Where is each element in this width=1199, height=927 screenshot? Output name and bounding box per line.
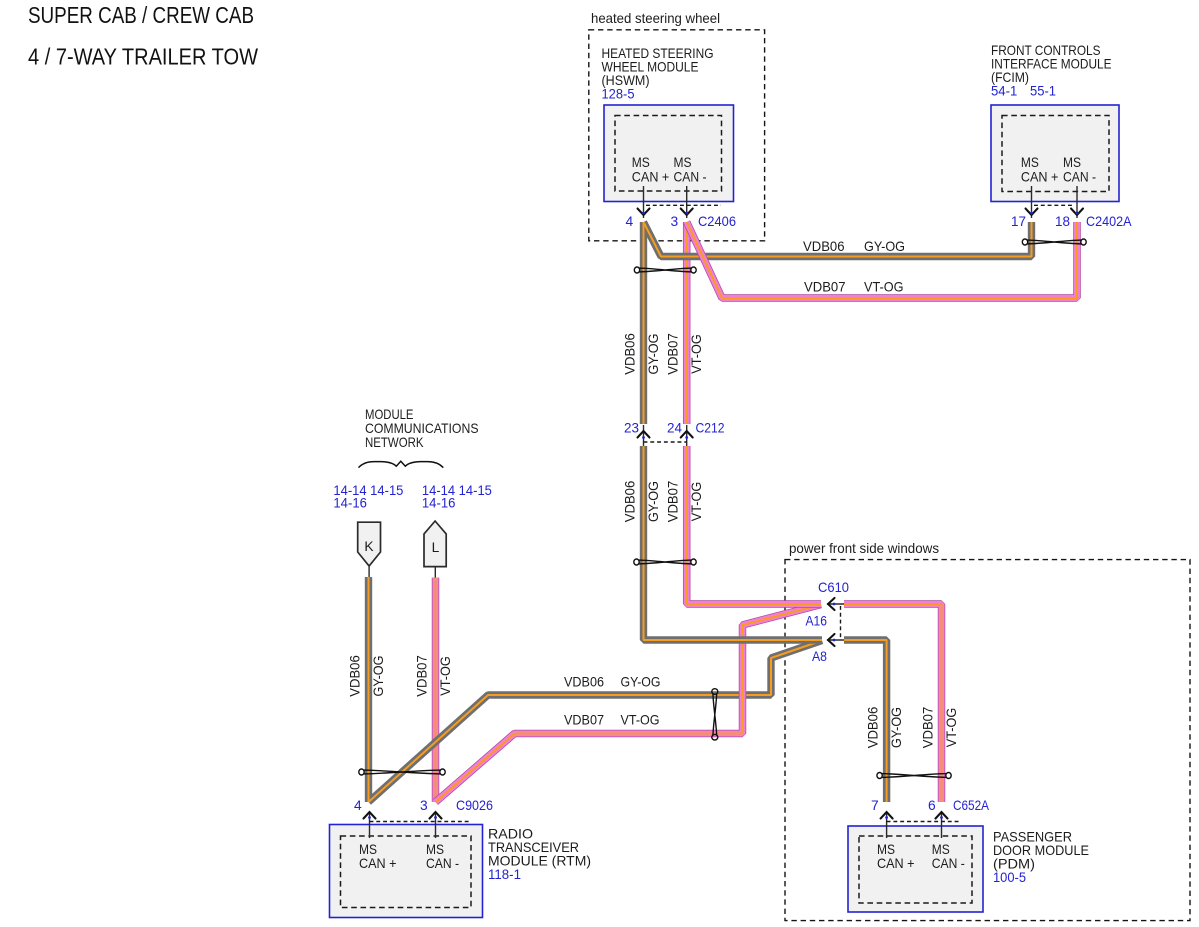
twisted pair on K/L verticals xyxy=(359,769,445,775)
svg-text:18: 18 xyxy=(1055,214,1070,229)
svg-text:GY-OG: GY-OG xyxy=(646,334,661,375)
brace xyxy=(359,461,444,467)
RTM pin leads xyxy=(370,812,436,838)
svg-text:128-5: 128-5 xyxy=(602,86,635,101)
svg-text:4: 4 xyxy=(626,214,634,229)
pin dot 3 (RTM) xyxy=(434,816,437,819)
pin dot 7 xyxy=(885,816,888,819)
connector C212 pin arrows xyxy=(638,431,693,438)
svg-text:23: 23 xyxy=(624,421,639,436)
svg-text:VT-OG: VT-OG xyxy=(864,280,904,295)
svg-text:4: 4 xyxy=(354,798,362,813)
svg-text:54-1: 54-1 xyxy=(991,83,1017,98)
wire VDB06 GY-OG from K and RTM pin4 to A8 xyxy=(369,577,823,802)
wire VDB07 VT-OG vertical C2406->C212 xyxy=(686,222,688,424)
svg-text:MS: MS xyxy=(632,155,650,170)
connector C610 pin arrows xyxy=(828,598,835,646)
wire VDB07 VT-OG: diagonal + run to FCIM pin18 xyxy=(687,222,1077,298)
svg-text:VDB07: VDB07 xyxy=(921,707,936,749)
svg-text:VDB06: VDB06 xyxy=(348,655,363,697)
svg-text:C652A: C652A xyxy=(953,798,990,813)
connector C2406 dashed pin line xyxy=(646,204,721,206)
svg-text:3: 3 xyxy=(420,798,428,813)
svg-text:VDB06: VDB06 xyxy=(803,239,845,254)
wire VDB07 VT-OG from C212 pin24 to C610 A16 xyxy=(687,446,821,604)
svg-text:MS: MS xyxy=(1063,155,1081,170)
connector C610 pin tails xyxy=(827,604,844,640)
FCIM pin leads xyxy=(1032,186,1078,218)
svg-text:VDB07: VDB07 xyxy=(666,481,681,523)
connector C9026 dashed pin line xyxy=(370,821,470,823)
svg-text:MS: MS xyxy=(426,842,444,857)
svg-text:CAN +: CAN + xyxy=(632,170,670,185)
svg-text:A8: A8 xyxy=(812,649,827,664)
wire VDB06 GY-OG from C610 A8 to PDM pin7 xyxy=(844,640,887,802)
svg-text:MS: MS xyxy=(359,842,377,857)
twisted pair below FCIM C2402A xyxy=(1022,239,1086,245)
svg-text:SUPER CAB / CREW CAB: SUPER CAB / CREW CAB xyxy=(28,2,254,28)
svg-text:CAN -: CAN - xyxy=(932,856,965,871)
off-page connector K xyxy=(358,522,381,566)
pin dot 4 (RTM) xyxy=(368,816,371,819)
svg-text:24: 24 xyxy=(667,421,682,436)
connector C2402A dashed pin line xyxy=(1034,204,1074,206)
svg-text:VDB07: VDB07 xyxy=(666,333,681,375)
connector C212 dashed pin line xyxy=(644,441,687,443)
svg-text:MS: MS xyxy=(877,842,895,857)
dashed enclosure: heated steering wheel xyxy=(589,30,765,241)
svg-text:CAN -: CAN - xyxy=(426,856,459,871)
svg-text:power front side windows: power front side windows xyxy=(789,541,939,556)
HSWM pin arrows xyxy=(638,209,693,216)
svg-text:NETWORK: NETWORK xyxy=(365,435,424,450)
wire VDB07 VT-OG from RTM pin3 to C610 A16 xyxy=(436,605,822,803)
svg-text:GY-OG: GY-OG xyxy=(621,675,661,690)
svg-text:MODULE: MODULE xyxy=(365,407,414,422)
svg-text:CAN -: CAN - xyxy=(674,170,707,185)
PDM pin leads xyxy=(887,812,942,838)
svg-text:COMMUNICATIONS: COMMUNICATIONS xyxy=(365,421,479,436)
svg-text:VT-OG: VT-OG xyxy=(689,334,704,374)
wire VDB07 VT-OG from C610 A16 to PDM pin6 xyxy=(844,604,942,802)
connector C610 dashed pin line xyxy=(840,606,842,639)
svg-text:heated steering wheel: heated steering wheel xyxy=(591,11,720,26)
svg-text:A16: A16 xyxy=(806,614,828,629)
PDM pin arrows xyxy=(881,812,948,819)
svg-text:K: K xyxy=(364,539,374,554)
svg-text:55-1: 55-1 xyxy=(1030,83,1056,98)
connector C652A dashed pin line xyxy=(887,821,960,823)
svg-text:VDB07: VDB07 xyxy=(564,713,604,728)
svg-text:CAN -: CAN - xyxy=(1063,170,1096,185)
wire VDB06 GY-OG from C212 pin23 to C610 A8 xyxy=(644,446,823,640)
svg-text:CAN +: CAN + xyxy=(1021,170,1059,185)
svg-text:118-1: 118-1 xyxy=(488,867,521,882)
svg-text:MS: MS xyxy=(932,842,950,857)
svg-text:VDB06: VDB06 xyxy=(866,706,881,748)
svg-text:C610: C610 xyxy=(818,580,849,595)
pin dot 3 xyxy=(685,212,688,215)
wire VDB06 GY-OG: pin4 vertical + run to FCIM pin17 xyxy=(644,222,1032,424)
pin dot 18 xyxy=(1076,212,1079,215)
connector C212 pin leads xyxy=(644,425,687,446)
svg-text:CAN +: CAN + xyxy=(359,856,397,871)
svg-text:14-16: 14-16 xyxy=(422,496,456,511)
svg-text:7: 7 xyxy=(871,798,879,813)
pin dot 17 xyxy=(1030,212,1033,215)
svg-text:VDB06: VDB06 xyxy=(623,480,638,522)
svg-text:GY-OG: GY-OG xyxy=(864,239,905,254)
svg-text:VDB07: VDB07 xyxy=(415,655,430,697)
pin dot 23 xyxy=(642,436,645,439)
off-page connector L xyxy=(424,521,446,567)
module FCIM box xyxy=(991,105,1119,202)
svg-text:17: 17 xyxy=(1011,214,1026,229)
svg-text:VT-OG: VT-OG xyxy=(438,656,453,696)
svg-text:C9026: C9026 xyxy=(456,798,493,813)
twisted pair on RTM-junction runs (vertical) xyxy=(712,689,718,740)
svg-text:VT-OG: VT-OG xyxy=(944,708,959,748)
FCIM pin arrows xyxy=(1026,209,1084,216)
svg-text:CAN +: CAN + xyxy=(877,856,915,871)
svg-text:VT-OG: VT-OG xyxy=(689,482,704,522)
svg-text:14-16: 14-16 xyxy=(333,496,367,511)
pin dot A8 xyxy=(833,639,836,642)
wire VDB07 VT-OG vertical from L xyxy=(435,578,437,802)
svg-text:MS: MS xyxy=(674,155,692,170)
pin dot 24 xyxy=(685,436,688,439)
pin dot 6 xyxy=(940,816,943,819)
pin dot 4 xyxy=(642,212,645,215)
RTM pin arrows xyxy=(364,812,442,819)
svg-text:C2402A: C2402A xyxy=(1086,214,1132,229)
dashed enclosure: power front side windows xyxy=(785,560,1190,921)
svg-text:GY-OG: GY-OG xyxy=(889,707,904,748)
svg-text:VDB06: VDB06 xyxy=(564,675,604,690)
svg-text:100-5: 100-5 xyxy=(993,870,1026,885)
twisted pair below C2406 xyxy=(634,267,696,273)
svg-text:VT-OG: VT-OG xyxy=(621,713,660,728)
svg-text:MS: MS xyxy=(1021,155,1039,170)
svg-text:6: 6 xyxy=(928,798,936,813)
module HSWM box xyxy=(604,105,734,202)
svg-text:C2406: C2406 xyxy=(698,214,736,229)
twisted pair on PDM verticals xyxy=(877,773,951,779)
svg-text:L: L xyxy=(432,540,440,555)
svg-text:C212: C212 xyxy=(696,421,725,436)
twisted pair between C212 and C610 xyxy=(634,559,696,565)
svg-text:4 / 7-WAY TRAILER TOW: 4 / 7-WAY TRAILER TOW xyxy=(28,44,258,70)
svg-text:VDB06: VDB06 xyxy=(623,333,638,375)
svg-text:GY-OG: GY-OG xyxy=(646,481,661,522)
svg-text:VDB07: VDB07 xyxy=(804,280,846,295)
svg-text:GY-OG: GY-OG xyxy=(371,656,386,697)
pin dot A16 xyxy=(833,603,836,606)
HSWM pin leads xyxy=(644,186,687,218)
svg-text:3: 3 xyxy=(671,214,679,229)
